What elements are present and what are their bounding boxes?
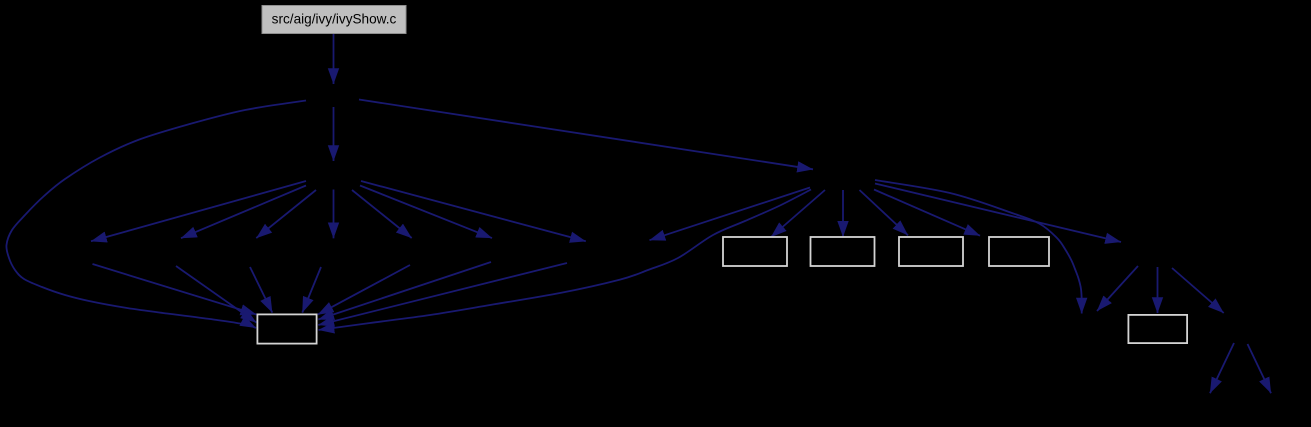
edge L2 to box G xyxy=(176,266,256,323)
edge D to box B1 xyxy=(771,190,825,237)
edge B to box G (big left loop) xyxy=(6,101,306,329)
edge L1 to box G xyxy=(93,264,257,315)
edge D to box B4 xyxy=(874,190,980,236)
edge D to leaf L9 (right swinging curve) xyxy=(875,180,1082,314)
edge D to node M xyxy=(650,188,811,241)
edge D to hub E xyxy=(875,184,1121,243)
edge B to node C (vertical) xyxy=(333,107,335,161)
box B3 xyxy=(899,237,963,266)
edge E to box B5 (vertical) xyxy=(1157,267,1159,313)
box B2 xyxy=(811,237,875,266)
edge C to leaf L3 xyxy=(256,190,316,238)
box B5 (right) xyxy=(1128,315,1187,343)
edge L3 to box G xyxy=(250,267,272,313)
edge F to leaf L12 xyxy=(1248,344,1272,393)
edge C to leaf L2 xyxy=(181,186,306,239)
box B4 xyxy=(989,237,1049,266)
edge F to leaf L11 xyxy=(1210,343,1234,393)
edge L5 to box G xyxy=(318,265,410,315)
edge E to leaf L10 xyxy=(1097,266,1138,311)
box G (bottom-left include target) xyxy=(257,314,316,343)
node T src/aig/ivy/ivyShow.c (root, grey filled) xyxy=(262,6,406,34)
svg-text:src/aig/ivy/ivyShow.c: src/aig/ivy/ivyShow.c xyxy=(272,12,397,27)
box B1 xyxy=(723,237,787,266)
edge D to box G (long S-curve under the boxes) xyxy=(319,190,812,331)
edge C to leaf L6 xyxy=(360,186,492,239)
edge E to hub F xyxy=(1172,268,1224,313)
edge T to node B (vertical) xyxy=(333,34,335,84)
edge B to hub D (long straight right) xyxy=(359,100,813,170)
edge M to box G xyxy=(318,263,567,325)
edge D to box B3 xyxy=(860,190,909,235)
edge C to leaf L5 xyxy=(352,190,412,238)
edge C to leaf L4 (vertical) xyxy=(333,190,335,239)
edge D to box B2 (vertical) xyxy=(842,190,844,237)
edge C to node M xyxy=(361,181,586,241)
edge L4 to box G xyxy=(302,267,321,313)
edge C to leaf L1 xyxy=(91,181,306,241)
edge L6 to box G xyxy=(318,262,491,320)
